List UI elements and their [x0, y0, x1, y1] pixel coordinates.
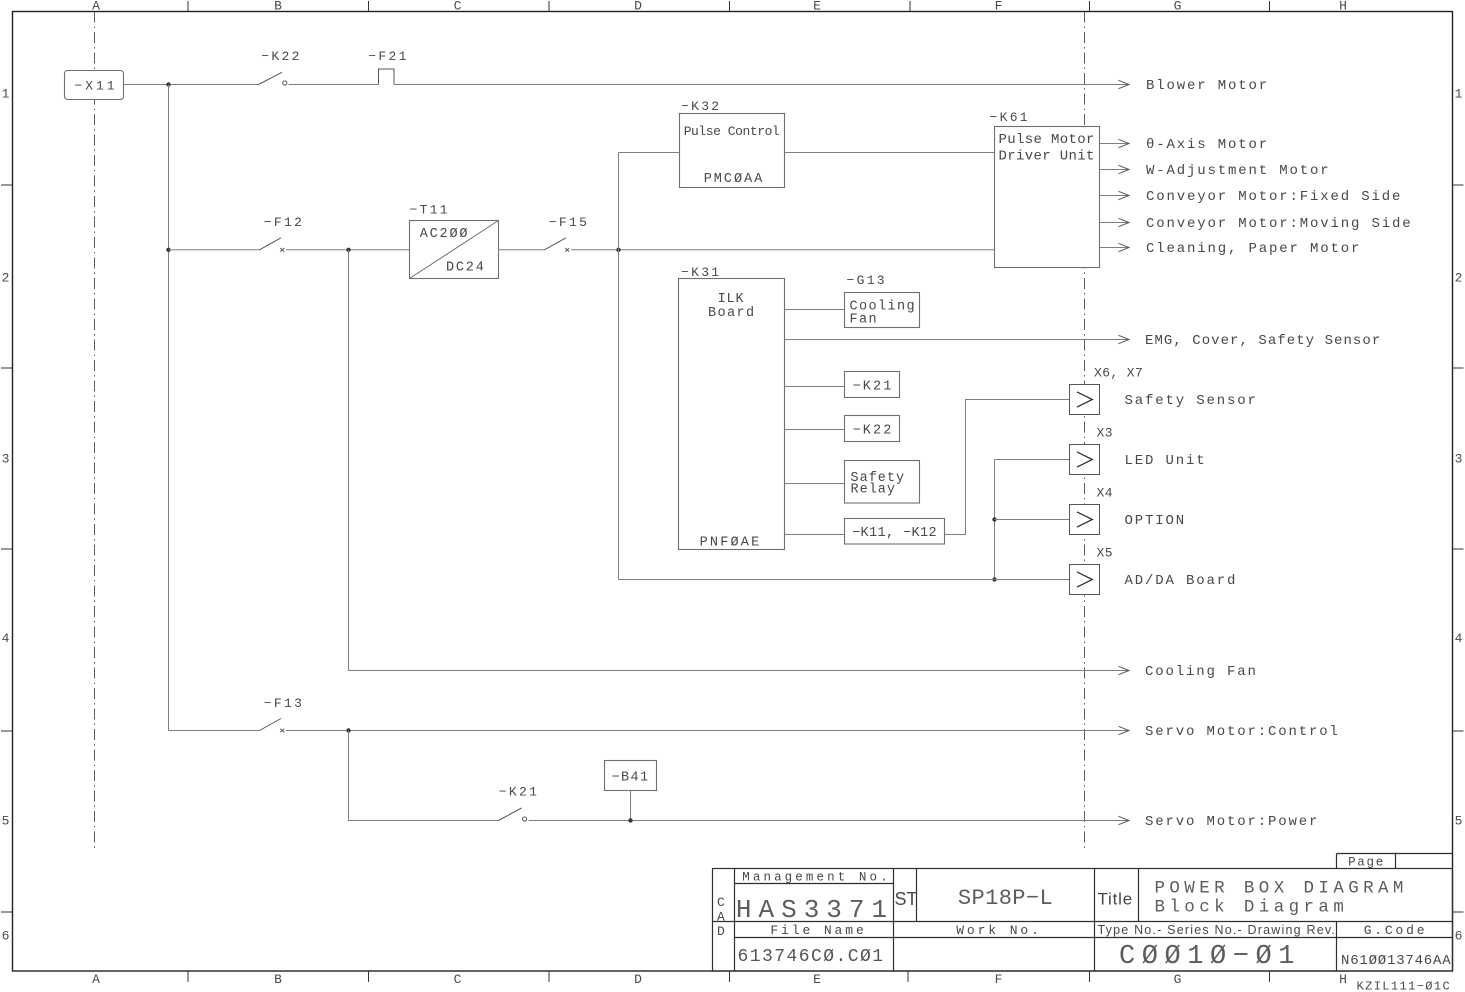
svg-text:−K21: −K21: [853, 380, 894, 395]
wire F13 to servo control arrow: [286, 730, 1129, 732]
box K11 K12: [845, 519, 945, 545]
wire cooling fan branch: [349, 250, 1130, 671]
svg-text:D: D: [634, 972, 642, 987]
svg-text:−X11: −X11: [74, 79, 117, 94]
svg-text:E: E: [813, 972, 821, 987]
svg-text:−G13: −G13: [847, 273, 887, 288]
svg-text:B: B: [274, 972, 282, 987]
node junction cooling-fan branch: [346, 248, 350, 252]
box G13 Cooling Fan: [845, 293, 920, 328]
node junction B41: [628, 818, 632, 822]
wire K32 to K61: [785, 152, 995, 154]
switch K22: [259, 72, 287, 85]
connector X6 X7: [1070, 385, 1100, 415]
svg-text:F: F: [995, 972, 1003, 987]
node junction option: [992, 517, 996, 521]
wire K31 to K22: [785, 429, 845, 431]
svg-text:ILK: ILK: [718, 292, 745, 307]
svg-text:D: D: [717, 924, 725, 939]
svg-text:Conveyor Motor:Moving Side: Conveyor Motor:Moving Side: [1146, 216, 1413, 232]
switch F12: [260, 238, 285, 252]
svg-text:3: 3: [1455, 452, 1463, 467]
svg-text:N61ØØ13746AA: N61ØØ13746AA: [1341, 953, 1451, 969]
svg-text:Fan: Fan: [850, 313, 879, 328]
svg-text:−F21: −F21: [368, 49, 408, 64]
svg-text:4: 4: [1455, 631, 1463, 646]
wire X11 to K22: [124, 84, 259, 86]
box Safety Relay: [845, 461, 920, 504]
wire bus to F12: [169, 249, 260, 251]
arrow servo control: [1119, 726, 1130, 734]
wire to LED connector: [995, 459, 1071, 461]
svg-text:−B41: −B41: [611, 771, 649, 786]
connector X3: [1070, 445, 1100, 475]
svg-text:Cleaning, Paper Motor: Cleaning, Paper Motor: [1146, 241, 1361, 257]
svg-text:H: H: [1339, 972, 1347, 987]
svg-text:−K22: −K22: [853, 424, 894, 439]
svg-text:−K61: −K61: [990, 110, 1030, 125]
svg-text:−F13: −F13: [264, 696, 304, 711]
wire K31 to K21: [785, 386, 845, 388]
fuse F21: [379, 69, 395, 85]
svg-text:File Name: File Name: [770, 923, 866, 938]
svg-text:AD/DA Board: AD/DA Board: [1125, 573, 1238, 589]
svg-text:C: C: [454, 972, 462, 987]
wire vertical LED/OPTION branch: [994, 460, 996, 580]
svg-text:LED Unit: LED Unit: [1125, 453, 1207, 469]
svg-text:4: 4: [2, 631, 10, 646]
svg-text:Servo Motor:Power: Servo Motor:Power: [1145, 814, 1319, 830]
svg-text:G: G: [1174, 972, 1182, 987]
box B41: [605, 761, 657, 791]
box K31 ILK Board: [679, 279, 785, 551]
transformer T11: [410, 221, 499, 279]
svg-text:C: C: [454, 0, 462, 14]
svg-text:2: 2: [2, 271, 10, 286]
wire K21 to servo power arrow: [529, 820, 1130, 822]
svg-text:D: D: [634, 0, 642, 14]
reference line (dash-dot) left: [94, 12, 96, 850]
wire K31 to EMG arrow: [785, 335, 1130, 343]
wire servo power branch: [349, 731, 499, 821]
svg-text:613746CØ.CØ1: 613746CØ.CØ1: [738, 947, 885, 967]
svg-text:W-Adjustment Motor: W-Adjustment Motor: [1146, 163, 1331, 179]
wire F21 to blower arrow: [394, 84, 1129, 86]
svg-text:1: 1: [2, 87, 10, 102]
wire 24V vertical branch: [618, 153, 620, 580]
wire K11K12 to X6X7 connector: [945, 400, 1071, 535]
connector X4: [1070, 505, 1100, 535]
wire F15 to K61: [571, 249, 995, 251]
box K32 Pulse Control: [680, 114, 785, 188]
svg-text:SP18P−L: SP18P−L: [958, 886, 1053, 911]
box K21: [845, 372, 900, 398]
svg-text:Page: Page: [1348, 856, 1385, 870]
svg-text:A: A: [92, 0, 100, 14]
svg-text:X4: X4: [1097, 486, 1113, 501]
wire T11 to F15: [499, 249, 545, 251]
svg-text:Title: Title: [1098, 890, 1134, 909]
svg-text:Conveyor Motor:Fixed Side: Conveyor Motor:Fixed Side: [1146, 189, 1402, 205]
arrow servo power: [1119, 816, 1130, 824]
box K61 Pulse Motor Driver Unit: [995, 127, 1100, 268]
wire to OPTION connector: [995, 519, 1071, 521]
svg-text:G: G: [1174, 0, 1182, 14]
svg-text:θ-Axis Motor: θ-Axis Motor: [1146, 137, 1269, 153]
svg-text:G.Code: G.Code: [1364, 923, 1428, 938]
svg-text:PMCØAA: PMCØAA: [704, 172, 765, 187]
svg-text:X5: X5: [1097, 546, 1113, 561]
wire K61 conveyor-moving arrow: [1100, 218, 1130, 226]
svg-text:−K21: −K21: [499, 785, 539, 800]
svg-text:−K32: −K32: [681, 99, 721, 114]
svg-text:OPTION: OPTION: [1125, 513, 1187, 529]
wire F12 to T11: [286, 249, 410, 251]
svg-text:Relay: Relay: [851, 483, 897, 498]
svg-text:−K31: −K31: [681, 265, 721, 280]
arrow cooling fan: [1119, 666, 1130, 674]
wire K61 conveyor-fixed arrow: [1100, 191, 1130, 199]
node junction adda: [992, 577, 996, 581]
svg-text:5: 5: [2, 814, 10, 829]
box K22: [845, 416, 900, 442]
svg-text:3: 3: [2, 452, 10, 467]
wire left bus vertical: [168, 85, 170, 731]
svg-text:Driver Unit: Driver Unit: [999, 148, 1095, 164]
svg-text:X6, X7: X6, X7: [1094, 366, 1143, 381]
svg-text:Blower Motor: Blower Motor: [1146, 78, 1269, 94]
wire 24V to ADDA connector: [619, 579, 1071, 581]
svg-text:Servo Motor:Control: Servo Motor:Control: [1145, 724, 1340, 740]
node junction top bus: [166, 82, 170, 86]
svg-text:6: 6: [2, 929, 10, 944]
svg-text:POWER BOX DIAGRAM: POWER BOX DIAGRAM: [1155, 879, 1408, 899]
arrow Blower Motor: [1119, 80, 1130, 88]
wire K31 to K11K12: [785, 534, 845, 536]
svg-text:−K11, −K12: −K11, −K12: [852, 526, 937, 541]
switch K21: [499, 808, 527, 821]
svg-text:KZIL111−Ø1C: KZIL111−Ø1C: [1357, 980, 1452, 992]
wire bus to F13: [169, 730, 260, 732]
wire K31 to safety relay: [785, 483, 845, 485]
svg-text:F: F: [995, 0, 1003, 14]
switch F15: [545, 238, 570, 252]
svg-text:Safety Sensor: Safety Sensor: [1125, 393, 1258, 409]
wire B41 stub: [630, 791, 632, 821]
svg-text:C: C: [717, 895, 725, 910]
svg-text:X3: X3: [1097, 426, 1113, 441]
svg-text:−T11: −T11: [410, 203, 450, 218]
svg-text:AC2ØØ: AC2ØØ: [420, 227, 470, 242]
switch F13: [260, 719, 285, 733]
svg-text:ST: ST: [895, 889, 918, 909]
svg-text:Type No.- Series No.- Drawing: Type No.- Series No.- Drawing Rev.: [1098, 923, 1337, 937]
svg-text:2: 2: [1455, 271, 1463, 286]
svg-text:Pulse Motor: Pulse Motor: [999, 132, 1095, 148]
svg-text:−K22: −K22: [261, 49, 301, 64]
svg-text:Block Diagram: Block Diagram: [1155, 898, 1349, 918]
svg-text:HAS3371: HAS3371: [736, 895, 894, 925]
wire K22 to F21: [289, 84, 379, 86]
wire K61 w-adjust arrow: [1100, 165, 1130, 173]
wire K61 theta-axis arrow: [1100, 139, 1130, 147]
svg-text:−F12: −F12: [264, 215, 304, 230]
svg-text:Board: Board: [708, 306, 756, 321]
connector X11: [65, 71, 124, 100]
svg-text:Pulse Control: Pulse Control: [684, 124, 780, 139]
svg-text:−F15: −F15: [549, 215, 589, 230]
svg-text:6: 6: [1455, 929, 1463, 944]
wire K61 cleaning arrow: [1100, 243, 1130, 251]
svg-text:A: A: [717, 910, 725, 925]
svg-text:H: H: [1339, 0, 1347, 14]
svg-text:CØØ1Ø−Ø1: CØØ1Ø−Ø1: [1119, 942, 1301, 972]
svg-text:E: E: [813, 0, 821, 14]
svg-text:Cooling Fan: Cooling Fan: [1145, 664, 1258, 680]
svg-text:A: A: [92, 972, 100, 987]
svg-text:5: 5: [1455, 814, 1463, 829]
title block: [713, 854, 1453, 992]
node junction servo power branch: [346, 728, 350, 732]
svg-text:1: 1: [1455, 87, 1463, 102]
svg-text:EMG, Cover, Safety Sensor: EMG, Cover, Safety Sensor: [1145, 333, 1381, 349]
wire to K32: [619, 152, 680, 154]
node junction F12 branch: [166, 248, 170, 252]
wire K31 to G13: [785, 309, 845, 311]
reference line (dash-dot) right: [1084, 12, 1086, 850]
svg-text:Management No.: Management No.: [742, 871, 890, 885]
connector X5: [1070, 565, 1100, 595]
svg-text:DC24: DC24: [446, 261, 486, 276]
svg-text:B: B: [274, 0, 282, 14]
svg-text:Work No.: Work No.: [956, 923, 1042, 938]
svg-text:PNFØAE: PNFØAE: [700, 536, 762, 551]
node junction 24V branch: [616, 248, 620, 252]
